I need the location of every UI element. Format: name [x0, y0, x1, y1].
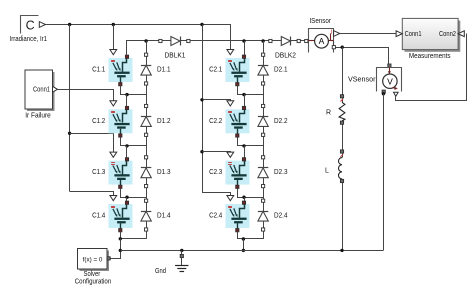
bypass diode D1.3	[141, 156, 151, 188]
label C1.2	[92, 118, 105, 125]
svg-text:C2.2: C2.2	[209, 118, 222, 125]
junction rail2 row3 feed	[200, 150, 203, 153]
label C2.3	[209, 169, 222, 176]
junction node row2 col2	[242, 144, 245, 147]
wire: D1.4 bottom drop	[146, 231, 148, 239]
svg-text:V: V	[387, 76, 393, 86]
inductor L	[339, 150, 344, 183]
wire: C1.2 bottom to node	[121, 138, 147, 146]
label D1.1	[157, 67, 171, 74]
bypass diode D1.2	[141, 104, 151, 136]
svg-text:Configuration: Configuration	[75, 279, 112, 286]
wire: node to C2.3 top	[244, 146, 246, 158]
current sensor ISensor frame	[309, 29, 334, 53]
solar cell C2.3	[226, 158, 250, 189]
wire: R to L	[342, 124, 344, 149]
svg-text:D2.4: D2.4	[274, 213, 288, 220]
solar cell C2.1	[226, 55, 250, 86]
label VSensor	[348, 76, 376, 83]
junction string2 bottom	[242, 237, 245, 240]
label Configuration	[75, 279, 112, 286]
label Gnd	[155, 268, 166, 275]
svg-text:C1.1: C1.1	[92, 67, 105, 74]
svg-text:D1.1: D1.1	[157, 67, 171, 74]
wire: C2.1 bottom to node	[238, 86, 264, 95]
wire: DBLK2 to ISensor	[300, 40, 304, 42]
blocking diode DBLK1	[159, 37, 190, 46]
wire: node to C1.3 top	[126, 146, 128, 158]
junction rail1 row3 feed	[68, 132, 71, 135]
junction load node	[341, 46, 344, 49]
wire: rail1 vertical	[69, 25, 71, 192]
label ISensor	[309, 18, 331, 25]
wire: node to C1.4 top	[126, 197, 128, 201]
block Measurements shadow	[405, 21, 461, 52]
label Solver	[84, 271, 101, 278]
wire: feed C2.2	[203, 100, 231, 101]
VSensor meter circle	[383, 74, 397, 88]
Solver Configuration port	[107, 257, 110, 260]
wire: D2.3 to D2.4	[263, 188, 265, 199]
svg-text:VSensor: VSensor	[348, 76, 376, 83]
svg-text:I: I	[331, 29, 333, 36]
junction string1 on bus	[119, 249, 122, 252]
svg-text:C: C	[26, 19, 35, 33]
svg-text:C1.3: C1.3	[92, 169, 105, 176]
wire: top irradiance line	[46, 25, 231, 50]
junction ground on bus	[180, 249, 183, 252]
solar cell C2.4	[226, 201, 250, 232]
wire: C1.1 bottom to node	[121, 86, 147, 95]
junction node row1 col1	[125, 93, 128, 96]
svg-text:D1.3: D1.3	[157, 169, 171, 176]
junction node row3 col1	[125, 196, 128, 199]
label C2.2	[209, 118, 222, 125]
svg-text:ISensor: ISensor	[309, 18, 331, 25]
bypass diode D1.1	[141, 53, 151, 85]
label Measurements	[409, 53, 451, 60]
junction D2.1 top	[261, 39, 264, 42]
svg-text:Gnd: Gnd	[155, 268, 166, 275]
VSensor PS output arrow	[394, 92, 399, 96]
bypass diode D2.1	[258, 53, 268, 85]
irradiance input port of C1.2	[110, 101, 117, 106]
svg-text:Conn1: Conn1	[405, 31, 422, 38]
irradiance input port of C2.3	[227, 152, 234, 157]
svg-text:D1.4: D1.4	[157, 213, 171, 220]
junction string1 bottom	[119, 237, 122, 240]
solar cell C1.3	[109, 158, 133, 189]
svg-text:Ir Failure: Ir Failure	[25, 112, 51, 119]
wire: C1.3 bottom to node	[121, 189, 147, 198]
solar cell C1.2	[109, 106, 133, 137]
bypass diode D2.2	[258, 104, 268, 136]
svg-text:DBLK1: DBLK1	[165, 53, 186, 60]
wire: C1.1 top riser	[127, 41, 161, 55]
label C2.1	[209, 67, 222, 74]
label L	[325, 168, 329, 175]
irradiance input port of C2.2	[227, 101, 234, 106]
port arrow of Conn1	[53, 86, 58, 92]
wire: node to R	[342, 47, 344, 94]
svg-text:D2.1: D2.1	[274, 67, 288, 74]
junction on top wire at C1.1 drop	[112, 23, 115, 26]
ISensor meter circle	[315, 34, 329, 48]
wire: D2.2 to D2.3	[263, 137, 265, 156]
wire: feed C1.3	[70, 134, 114, 153]
irradiance input port of C1.1	[110, 50, 117, 55]
wire: rail2 vertical	[202, 25, 204, 194]
Measurements Conn1 input arrow	[396, 31, 402, 37]
label C1.1	[92, 67, 105, 74]
label C2.4	[209, 213, 222, 220]
junction node row2 col1	[125, 144, 128, 147]
wire: C2.3 bottom to node	[238, 189, 264, 198]
wire: ground bus	[120, 250, 383, 252]
block Conn1 (Ir Failure) shadow	[27, 72, 55, 111]
blocking diode DBLK2	[269, 37, 301, 46]
junction string2 on bus	[242, 249, 245, 252]
VSensor top port	[388, 64, 391, 67]
port arrow of source C	[39, 22, 45, 28]
label D2.1	[274, 67, 288, 74]
signal source C (Irradiance input)	[21, 16, 39, 34]
junction L on bus	[340, 249, 343, 252]
junction under VSensor port	[382, 92, 385, 95]
svg-text:C1.2: C1.2	[92, 118, 105, 125]
irradiance input port of C2.1	[227, 50, 234, 55]
svg-text:C2.4: C2.4	[209, 213, 222, 220]
junction D1.1 top	[144, 39, 147, 42]
wire: C2.2 bottom to node	[238, 138, 264, 146]
svg-text:A: A	[319, 36, 325, 46]
label D2.2	[274, 118, 288, 125]
block Solver Configuration	[78, 249, 108, 270]
svg-text:Irradiance, Ir1: Irradiance, Ir1	[10, 36, 48, 43]
wire: down to VSensor	[388, 47, 390, 64]
block Conn1 (Ir Failure)	[25, 70, 53, 109]
label DBLK1	[165, 53, 186, 60]
irradiance input port of C1.4	[110, 196, 117, 201]
wire: D1.1 top riser	[146, 41, 148, 53]
Measurements Conn2 input arrow	[458, 31, 464, 37]
svg-text:R: R	[326, 109, 331, 116]
VSensor red input arrow	[388, 68, 391, 75]
resistor R	[339, 95, 345, 125]
junction node row1 col2	[242, 93, 245, 96]
bypass diode D2.3	[258, 156, 268, 188]
label R	[326, 109, 331, 116]
wire: drop to C1.1 irradiance input	[113, 25, 115, 50]
wire: ISensor out to load node	[336, 47, 390, 49]
bypass diode D2.4	[258, 199, 268, 231]
label D1.3	[157, 169, 171, 176]
svg-text:D1.2: D1.2	[157, 118, 171, 125]
wire: VSensor negative rail	[383, 94, 385, 251]
svg-text:Conn2: Conn2	[439, 31, 456, 38]
wire: string2 to bus	[243, 239, 245, 250]
ground Gnd	[175, 250, 188, 271]
wire: C1.4 bottom to node	[121, 232, 147, 239]
svg-text:C2.3: C2.3	[209, 169, 222, 176]
VSensor bottom-left port	[382, 90, 385, 93]
ISensor bottom-right port	[332, 46, 335, 49]
wire: D2.1 to D2.2	[263, 85, 265, 104]
svg-text:f(x) = 0: f(x) = 0	[83, 256, 103, 263]
wire: D1.1 to D1.2	[146, 85, 148, 104]
wire: feed C1.4	[70, 192, 114, 196]
label C1.3	[92, 169, 105, 176]
svg-text:Conn1: Conn1	[33, 87, 50, 94]
wire: node to C2.2 top	[244, 95, 246, 107]
block Solver Configuration shadow	[80, 251, 110, 272]
wire: D2.1 top riser	[263, 41, 265, 53]
junction C2.1 top riser	[242, 39, 245, 42]
ISensor PS output arrow	[334, 31, 340, 37]
svg-text:D2.3: D2.3	[274, 169, 288, 176]
label D2.3	[274, 169, 288, 176]
wire: Conn1 to C1.2 irradiance	[58, 90, 114, 101]
ISensor I output label	[331, 29, 333, 36]
wire: ISensor I to Measurements Conn1	[340, 33, 396, 35]
svg-text:D2.2: D2.2	[274, 118, 288, 125]
wire: feed C2.4	[203, 193, 231, 196]
VSensor red output	[393, 87, 398, 90]
label Ir Failure	[25, 112, 51, 119]
label D1.4	[157, 213, 171, 220]
svg-text:DBLK2: DBLK2	[275, 53, 296, 60]
wire: D1.2 to D1.3	[146, 137, 148, 156]
wire: D2.4 bottom drop	[263, 231, 265, 239]
svg-text:C1.4: C1.4	[92, 213, 105, 220]
block Measurements	[402, 18, 458, 49]
wire: feed C2.3	[203, 152, 231, 153]
wire: C2.1 top riser	[244, 41, 246, 55]
wire: D1.3 to D1.4	[146, 188, 148, 199]
svg-text:Measurements: Measurements	[409, 53, 451, 60]
label DBLK2	[275, 53, 296, 60]
wire: VSensor output to Conn2	[396, 34, 467, 101]
junction node row3 col2	[242, 196, 245, 199]
irradiance input port of C2.4	[227, 196, 234, 201]
solar cell C1.1	[109, 55, 133, 86]
solar cell C2.2	[226, 106, 250, 137]
svg-text:Solver: Solver	[84, 271, 101, 278]
label C1.4	[92, 213, 105, 220]
voltage sensor VSensor frame	[377, 68, 402, 92]
wire: string1 to bus and solver	[111, 239, 121, 259]
junction on top wire at rail2	[200, 23, 203, 26]
solar cell C1.4	[109, 201, 133, 232]
irradiance input port of C1.3	[110, 152, 117, 157]
label D1.2	[157, 118, 171, 125]
wire: node to C2.4 top	[244, 197, 246, 201]
label D2.4	[274, 213, 288, 220]
ISensor internal wiring	[308, 34, 334, 46]
wire: C2.4 bottom to node	[238, 232, 264, 239]
junction on top wire at rail1	[68, 23, 71, 26]
bypass diode D1.4	[141, 199, 151, 231]
wire: L to bus	[342, 183, 344, 251]
wire: DBLK1 to DBLK2	[190, 40, 269, 42]
svg-text:C2.1: C2.1	[209, 67, 222, 74]
junction rail2 row2 feed	[200, 98, 203, 101]
wire: node to C1.2 top	[126, 95, 128, 107]
svg-text:L: L	[325, 168, 329, 175]
label Irradiance, Ir1	[10, 36, 48, 43]
ISensor left port	[305, 39, 308, 42]
